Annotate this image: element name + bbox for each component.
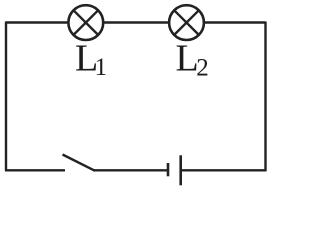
battery negative plate (short) xyxy=(167,163,170,176)
lamp L2 (circle with X) xyxy=(169,5,204,40)
label L2 xyxy=(176,38,209,82)
lamp L1 (circle with X) xyxy=(68,5,103,40)
wire: bottom left segment to switch xyxy=(5,169,65,171)
wire: right conductor xyxy=(264,22,266,172)
label L1 xyxy=(75,38,107,82)
wire: left conductor xyxy=(5,22,7,172)
switch S (open blade) xyxy=(63,155,96,171)
svg-text:2: 2 xyxy=(196,55,209,82)
battery positive plate (long) xyxy=(179,155,182,185)
wire: bottom segment switch to battery xyxy=(94,169,168,171)
wire: bottom segment battery to right corner xyxy=(181,169,267,171)
wire: top conductor xyxy=(6,21,266,23)
svg-text:1: 1 xyxy=(95,54,108,81)
